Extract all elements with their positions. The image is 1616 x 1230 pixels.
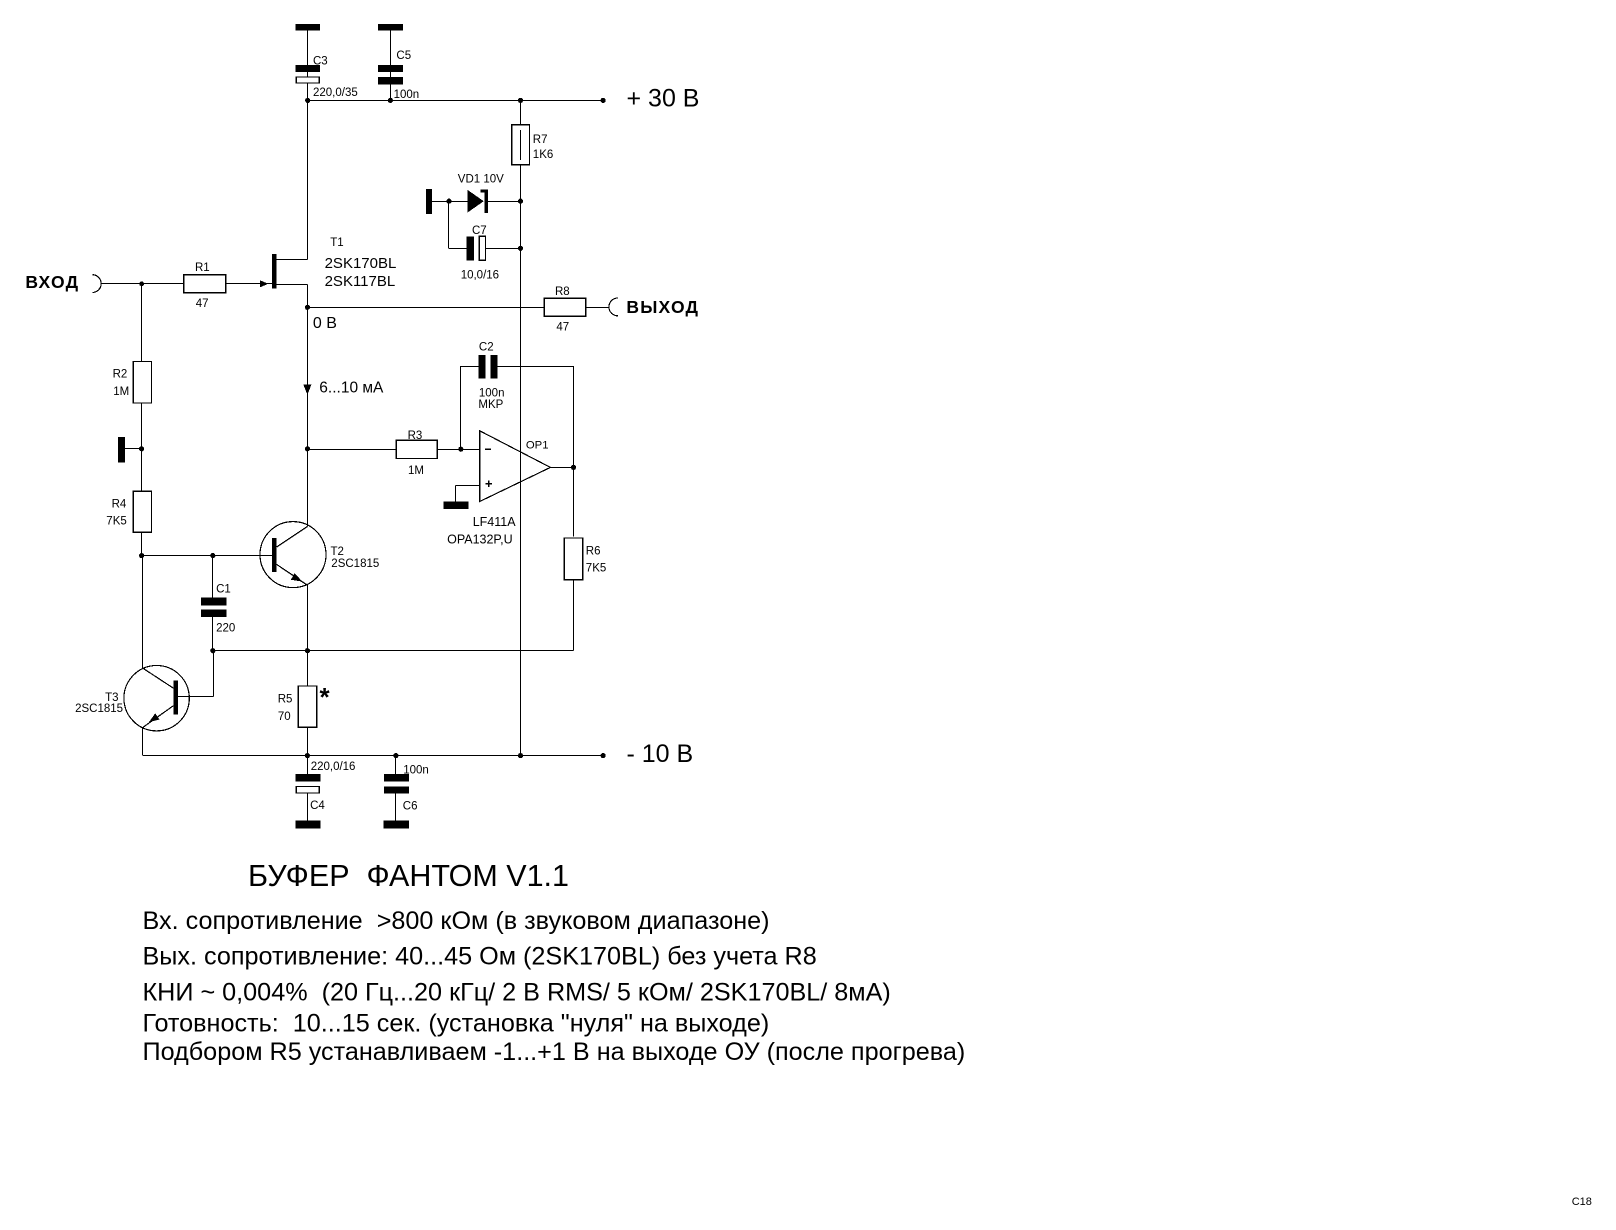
- svg-text:+ 30 В: + 30 В: [627, 85, 700, 113]
- wire VD1 anode: [432, 201, 468, 203]
- svg-text:0 В: 0 В: [313, 315, 337, 332]
- wire T3 base to C1 bottom node: [178, 696, 214, 698]
- ground (C4): [296, 820, 321, 828]
- svg-text:ВЫХОД: ВЫХОД: [626, 297, 699, 317]
- svg-text:VD1 10V: VD1 10V: [458, 174, 504, 186]
- node vertical line rail: [518, 753, 523, 758]
- svg-text:C2: C2: [479, 341, 494, 353]
- svg-text:1K6: 1K6: [533, 149, 553, 161]
- wire R5 to -10V rail: [307, 727, 309, 755]
- wire op-amp output: [550, 467, 573, 469]
- svg-text:2SC1815: 2SC1815: [75, 703, 123, 715]
- node T2 emitter / line: [305, 648, 310, 653]
- svg-text:Вых. сопротивление: 40...45 Ом: Вых. сопротивление: 40...45 Ом (2SK170BL…: [143, 942, 817, 970]
- svg-text:OPA132P,U: OPA132P,U: [447, 533, 513, 547]
- node input/R2: [139, 281, 144, 286]
- node R5/C4 rail: [305, 753, 310, 758]
- svg-text:R7: R7: [533, 134, 548, 146]
- terminal plate at VD1 anode: [426, 189, 432, 214]
- node T1 source / output line: [305, 305, 310, 310]
- wire R4 to T3 collector node: [141, 532, 143, 555]
- wire C7 branch down: [448, 201, 450, 248]
- svg-text:1M: 1M: [408, 465, 424, 477]
- resistor R3 1M: [396, 430, 437, 477]
- wire T2 emitter down through bottom line to R5: [307, 585, 309, 686]
- svg-text:100n: 100n: [394, 89, 420, 101]
- wire -10V rail: [143, 755, 603, 757]
- resistor R7 1K6: [512, 125, 554, 165]
- svg-text:2SK117BL: 2SK117BL: [325, 273, 396, 290]
- wire +30V rail: [307, 100, 603, 102]
- node VD1 cathode: [518, 199, 523, 204]
- svg-text:R1: R1: [195, 262, 210, 274]
- svg-text:2SC1815: 2SC1815: [331, 558, 379, 570]
- svg-text:T1: T1: [330, 237, 343, 249]
- wire T3 emitter down to -10V rail: [142, 727, 144, 755]
- svg-text:T2: T2: [331, 546, 344, 558]
- svg-text:C4: C4: [310, 800, 325, 812]
- wire T1 source down to output node: [307, 284, 309, 307]
- resistor R5 70 (selected): [278, 682, 331, 727]
- wire C1 bottom to line: [212, 617, 214, 651]
- capacitor C2 100n MKP: [478, 341, 504, 411]
- wire output line: [307, 307, 544, 309]
- wire C7 right plate to vertical line: [486, 248, 521, 250]
- node T3 collector / R4 / T2 base: [139, 553, 144, 558]
- wire T1 drain up to rail: [307, 100, 309, 259]
- wire R2 to R4: [141, 403, 143, 491]
- svg-text:R6: R6: [586, 546, 601, 558]
- svg-text:R8: R8: [555, 286, 570, 298]
- wire input node down to R2: [141, 284, 143, 362]
- svg-text:220: 220: [216, 623, 235, 635]
- transistor T3 2SC1815: [75, 666, 189, 731]
- svg-text:220,0/35: 220,0/35: [313, 87, 358, 99]
- wire C3 to +30V rail: [307, 31, 309, 101]
- svg-text:БУФЕР ФАНТОМ V1.1: БУФЕР ФАНТОМ V1.1: [248, 859, 569, 893]
- wire main vertical from rail to -10V rail: [520, 100, 522, 124]
- capacitor C3 (polarized 220,0/35): [296, 56, 358, 99]
- svg-text:C5: C5: [396, 50, 411, 62]
- node R7/rail: [518, 98, 523, 103]
- wire bottom feedback line: [213, 650, 574, 652]
- node C5/rail: [388, 98, 393, 103]
- svg-text:Подбором R5 устанавливаем -1..: Подбором R5 устанавливаем -1...+1 В на в…: [143, 1038, 966, 1066]
- svg-text:100n: 100n: [479, 388, 505, 400]
- node R3 branch: [305, 446, 310, 451]
- terminal plate at R2/R4 node: [118, 437, 125, 462]
- svg-text:47: 47: [196, 298, 209, 310]
- node R2/R4/plate: [139, 446, 144, 451]
- ground (op-amp non-inverting input): [443, 502, 468, 509]
- wire C6 to ground: [395, 794, 397, 821]
- node VD1 anode / C7 branch: [446, 199, 451, 204]
- capacitor C1 220: [201, 584, 235, 635]
- svg-text:47: 47: [556, 322, 569, 334]
- wire C4 to ground: [307, 793, 309, 820]
- svg-text:C7: C7: [472, 225, 487, 237]
- svg-text:7K5: 7K5: [106, 515, 126, 527]
- svg-text:1M: 1M: [113, 386, 129, 398]
- svg-text:C1: C1: [216, 584, 231, 596]
- svg-text:C6: C6: [403, 801, 418, 813]
- svg-text:R4: R4: [112, 498, 127, 510]
- transistor T2 2SC1815: [260, 522, 379, 588]
- svg-text:Готовность: 10...15 сек. (уст: Готовность: 10...15 сек. (установка "нул…: [143, 1010, 770, 1038]
- node C1/T3 base/line: [210, 648, 215, 653]
- resistor R8 47: [544, 286, 585, 334]
- svg-text:КНИ ~ 0,004% (20 Гц...20 кГц/: КНИ ~ 0,004% (20 Гц...20 кГц/ 2 В RMS/ 5…: [143, 978, 891, 1006]
- wire T2 base line: [142, 555, 272, 557]
- capacitor C7 (polarized 10,0/16): [461, 225, 499, 281]
- node +30V terminal: [601, 98, 606, 103]
- wire input to R1: [101, 283, 184, 285]
- wire to C7 left plate: [449, 248, 467, 250]
- svg-text:70: 70: [278, 711, 291, 723]
- wire C6 top: [395, 756, 397, 775]
- node C1 top branch: [210, 553, 215, 558]
- wire non-inverting input to ground: [456, 485, 480, 487]
- svg-text:C3: C3: [313, 56, 328, 68]
- svg-text:Вх. сопротивление >800 кОм (в: Вх. сопротивление >800 кОм (в звуковом д…: [143, 907, 770, 935]
- svg-text:LF411A: LF411A: [473, 515, 517, 529]
- svg-text:R3: R3: [408, 430, 423, 442]
- connector output: [609, 298, 618, 316]
- node C6 rail: [393, 753, 398, 758]
- wire C5 to +30V rail: [390, 31, 392, 101]
- wire VD1 cathode to vertical line: [488, 201, 521, 203]
- svg-text:6...10 мА: 6...10 мА: [319, 380, 384, 397]
- zener diode VD1 10V: [458, 174, 504, 213]
- node -10V terminal: [601, 753, 606, 758]
- capacitor C5 (100n): [378, 50, 419, 101]
- capacitor C6 100n: [384, 765, 429, 813]
- wire feedback vertical: [573, 366, 575, 536]
- node C3/rail: [305, 98, 310, 103]
- connector input: [92, 275, 101, 293]
- wire to R3: [307, 449, 396, 451]
- wire C2 left branch: [460, 366, 462, 449]
- wire R3 to inverting input: [437, 449, 480, 451]
- node C7/vertical line: [518, 246, 523, 251]
- ground (C6): [383, 820, 409, 828]
- wire R8 to output connector: [586, 307, 609, 309]
- svg-text:R2: R2: [113, 368, 128, 380]
- svg-text:220,0/16: 220,0/16: [311, 761, 356, 773]
- svg-text:100n: 100n: [403, 765, 429, 777]
- resistor R6 7K5: [564, 538, 606, 580]
- wire T1 source node down to R3 branch: [307, 307, 309, 526]
- svg-text:7K5: 7K5: [586, 563, 606, 575]
- svg-text:MKP: MKP: [478, 399, 503, 411]
- wire C1 top: [212, 556, 214, 598]
- resistor R4 7K5: [106, 491, 151, 532]
- svg-text:- 10 В: - 10 В: [627, 740, 694, 768]
- ground (top, at C3): [296, 24, 320, 31]
- wire R6 down to bottom line: [573, 580, 575, 651]
- wire T3 collector up: [142, 556, 144, 669]
- node inverting input / C2: [458, 447, 463, 452]
- svg-text:10,0/16: 10,0/16: [461, 269, 499, 281]
- svg-text:2SK170BL: 2SK170BL: [325, 255, 397, 272]
- transistor T1 2SK170BL JFET: [272, 237, 396, 290]
- svg-text:R5: R5: [278, 694, 293, 706]
- svg-text:T3: T3: [105, 692, 118, 704]
- resistor R2 1M: [113, 362, 152, 404]
- node op-amp output / feedback: [571, 465, 576, 470]
- svg-text:C18: C18: [1572, 1196, 1592, 1208]
- svg-text:*: *: [320, 682, 331, 712]
- current arrow 6...10 mA: [303, 385, 311, 395]
- op-amp OP1: [447, 431, 550, 547]
- capacitor C4 (polarized 220,0/16): [296, 761, 356, 812]
- svg-text:OP1: OP1: [526, 439, 549, 451]
- ground (top, at C5): [378, 24, 403, 31]
- wire R1 to T1 gate with arrow: [226, 283, 272, 285]
- resistor R1 47: [184, 262, 226, 310]
- wire C2 right to feedback line: [498, 366, 574, 368]
- wire plate to node: [125, 448, 141, 450]
- svg-text:ВХОД: ВХОД: [25, 272, 79, 292]
- wire C4 top: [307, 756, 309, 775]
